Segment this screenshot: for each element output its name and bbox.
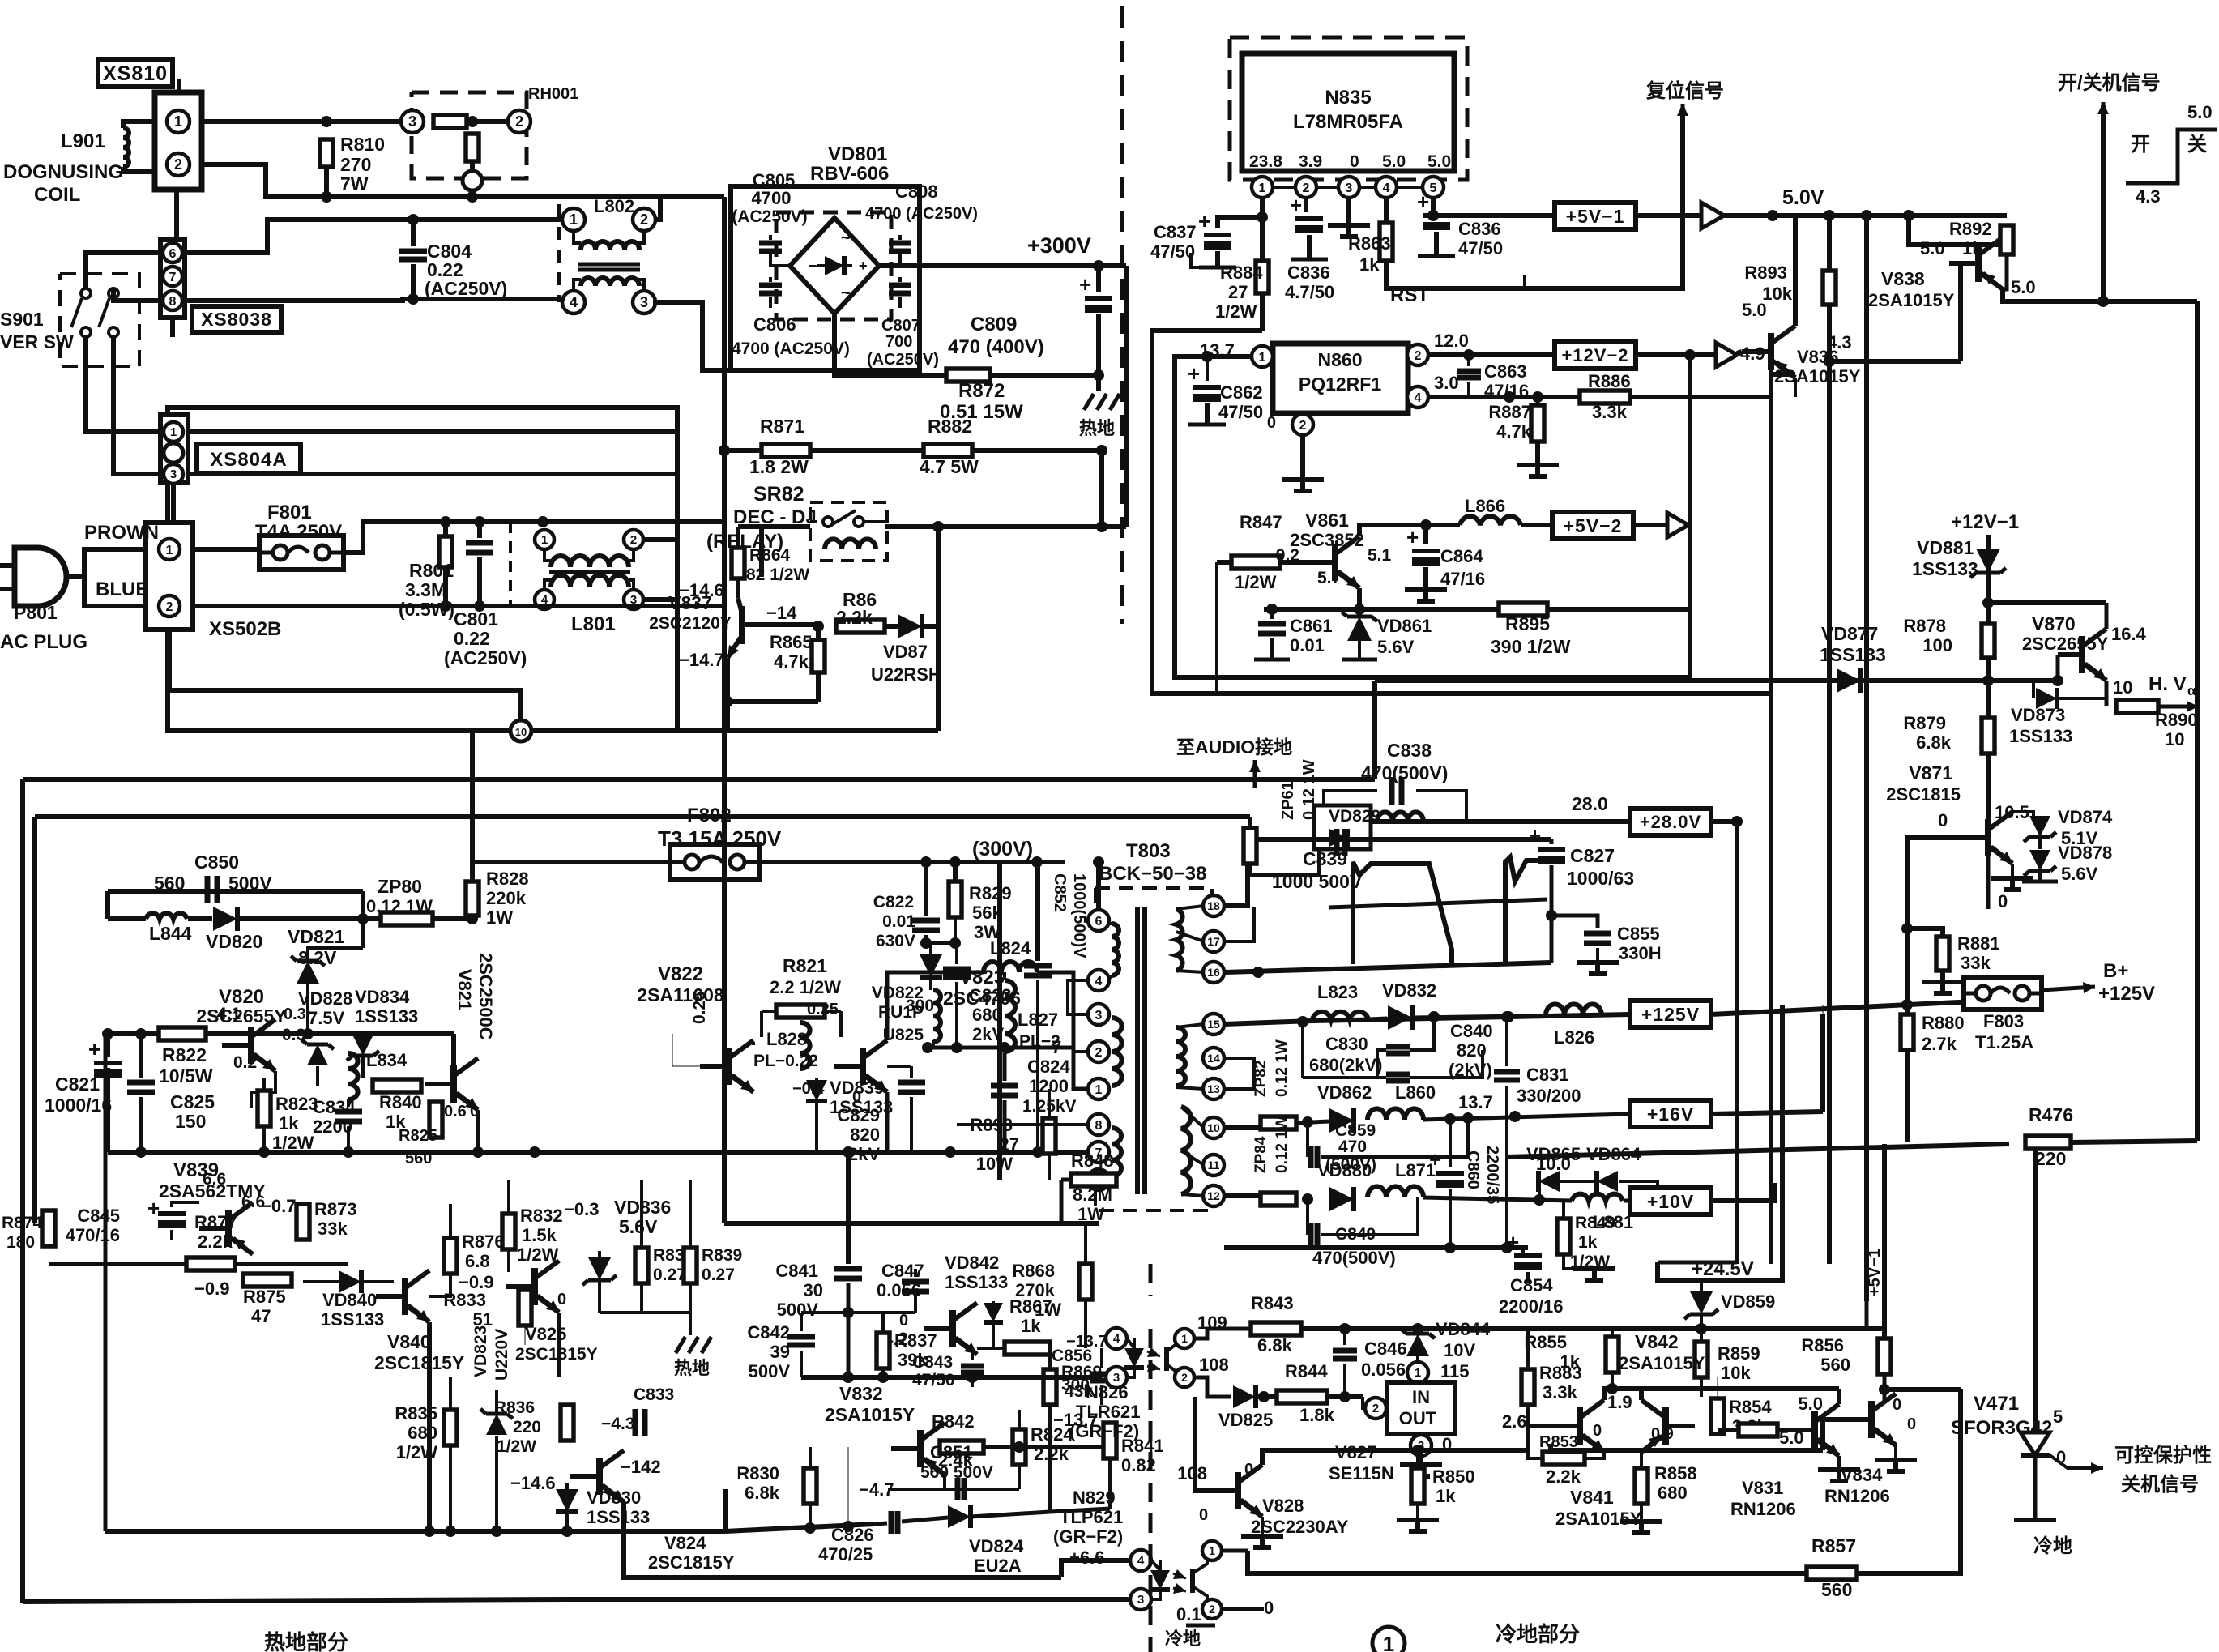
svg-text:R839: R839 (702, 1246, 742, 1265)
svg-text:4: 4 (1113, 1332, 1120, 1346)
bridge inner diode (825, 256, 844, 275)
SCR V471 symbol (2021, 1432, 2050, 1455)
resistor R830 (804, 1468, 817, 1504)
wire VD87 node down (936, 626, 941, 731)
svg-text:R801: R801 (409, 560, 454, 581)
svg-text:1/2W: 1/2W (497, 1437, 536, 1456)
svg-text:−14.6: −14.6 (510, 1473, 556, 1493)
node XS8038 label (192, 306, 281, 332)
inductor L827 (1005, 980, 1015, 1052)
svg-text:1: 1 (1095, 1083, 1103, 1097)
svg-text:PQ12RF1: PQ12RF1 (1299, 374, 1381, 395)
svg-text:(300V): (300V) (972, 838, 1033, 860)
svg-text:1SS133: 1SS133 (945, 1272, 1008, 1292)
svg-text:V471: V471 (1974, 1393, 2019, 1415)
svg-text:7W: 7W (340, 173, 369, 194)
wire R829 column (953, 862, 958, 881)
svg-text:R832: R832 (520, 1206, 563, 1226)
wire V861 emitter down (1357, 588, 1362, 609)
wire long vertical 2144 (1735, 822, 1739, 1262)
resistor R864 (736, 527, 740, 548)
opto N826 led (1124, 1348, 1144, 1368)
wire pin9 link (1061, 1178, 1088, 1182)
svg-text:330H: 330H (1619, 943, 1662, 963)
svg-text:R881: R881 (1957, 933, 2000, 954)
svg-text:V832: V832 (839, 1383, 883, 1404)
svg-text:+: + (1406, 525, 1419, 549)
svg-text:10W: 10W (976, 1154, 1013, 1174)
svg-text:V842: V842 (1635, 1331, 1679, 1352)
svg-text:1: 1 (1259, 351, 1266, 365)
resistor R838 (635, 1248, 648, 1283)
resistor R874 (42, 1210, 55, 1246)
svg-text:IN: IN (1412, 1387, 1430, 1407)
transistor V842s small (949, 1310, 956, 1347)
svg-text:R848: R848 (1071, 1150, 1114, 1171)
svg-text:+: + (88, 1037, 100, 1061)
svg-text:C801: C801 (454, 608, 498, 630)
svg-text:8: 8 (1095, 1119, 1103, 1133)
svg-text:C854: C854 (1510, 1275, 1553, 1296)
svg-text:C850: C850 (194, 852, 239, 873)
svg-text:0: 0 (2056, 1447, 2066, 1467)
svg-text:4: 4 (570, 294, 578, 310)
capacitor C821 (105, 1034, 110, 1057)
svg-text:C826: C826 (831, 1525, 874, 1545)
wire C822 column (924, 862, 928, 916)
svg-text:27: 27 (1000, 1134, 1019, 1155)
svg-text:2: 2 (166, 600, 173, 614)
svg-text:1/2W: 1/2W (517, 1244, 559, 1265)
ground N835 pin3 (1346, 198, 1351, 224)
wire V841 emitter (1640, 1452, 1643, 1468)
svg-text:C823: C823 (969, 985, 1012, 1005)
capacitor C831 (1505, 1017, 1508, 1066)
svg-text:冷地: 冷地 (2033, 1535, 2072, 1557)
fuse F802 (670, 844, 759, 880)
capacitor C830 (1301, 1022, 1304, 1078)
svg-text:2SA1015Y: 2SA1015Y (1555, 1509, 1642, 1529)
svg-text:XS810: XS810 (103, 62, 168, 85)
line filter L802 (562, 208, 585, 231)
wire L801 pin2 right (643, 537, 677, 542)
svg-text:V871: V871 (1909, 762, 1952, 783)
resistor R856 (1878, 1338, 1891, 1374)
wire V831 emitter gnd (1837, 1456, 1841, 1468)
svg-text:1: 1 (170, 425, 177, 439)
svg-text:6.8k: 6.8k (1916, 732, 1952, 753)
svg-text:1.8 2W: 1.8 2W (749, 456, 809, 477)
wire V838 out right (2103, 299, 2197, 304)
svg-text:560: 560 (154, 873, 185, 894)
svg-text:6.8k: 6.8k (745, 1483, 780, 1503)
svg-text:+12V−1: +12V−1 (1951, 511, 2019, 533)
zener VD821 (361, 919, 365, 948)
svg-text:BLUE: BLUE (96, 578, 148, 600)
svg-text:VD830: VD830 (587, 1488, 641, 1508)
svg-text:10: 10 (515, 726, 527, 738)
svg-text:可控保护性: 可控保护性 (2114, 1444, 2212, 1466)
capacitor C823 (955, 943, 958, 964)
resistor R839 (684, 1248, 697, 1283)
svg-text:U22RSH: U22RSH (871, 664, 941, 685)
wire V471 anode (2033, 1144, 2038, 1432)
wire V821 emitter (476, 1110, 480, 1152)
wire right edge vertical (2195, 301, 2200, 1141)
svg-text:C860: C860 (1464, 1150, 1482, 1189)
svg-text:330/200: 330/200 (1517, 1086, 1581, 1106)
svg-text:T1.25A: T1.25A (1975, 1032, 2033, 1052)
svg-text:500V: 500V (749, 1361, 791, 1381)
wire XS810 stub (177, 79, 181, 92)
svg-text:VD861: VD861 (1377, 616, 1432, 636)
wire pair collector (1604, 1389, 1641, 1400)
capacitor C860 (1449, 1118, 1452, 1167)
svg-text:5.1: 5.1 (1368, 546, 1392, 565)
svg-text:470/16: 470/16 (66, 1225, 120, 1245)
capacitor C845 (172, 1202, 199, 1207)
svg-text:5.7: 5.7 (1317, 569, 1341, 587)
svg-text:4.7k: 4.7k (1496, 421, 1532, 442)
svg-text:13.7: 13.7 (1458, 1092, 1493, 1112)
svg-text:L834: L834 (366, 1050, 408, 1070)
wire V870 emitter to HV (2105, 681, 2109, 706)
svg-text:13: 13 (1207, 1082, 1220, 1095)
hot ground at C809 (1096, 375, 1101, 391)
svg-text:1: 1 (174, 113, 182, 130)
svg-text:PL−0.22: PL−0.22 (753, 1052, 818, 1070)
svg-text:C840: C840 (1450, 1021, 1493, 1041)
wire V836 column (1769, 369, 1773, 397)
svg-text:V828: V828 (1262, 1496, 1304, 1516)
svg-text:82 1/2W: 82 1/2W (746, 566, 809, 584)
wire 125 rail (1224, 1014, 1630, 1024)
svg-text:2SC3852: 2SC3852 (1290, 530, 1364, 550)
diode VD87 (898, 614, 922, 638)
wire 24V elbow (1658, 1262, 1701, 1280)
svg-text:1000/16: 1000/16 (45, 1095, 112, 1116)
plug P801 (15, 548, 66, 606)
svg-text:820: 820 (850, 1125, 880, 1145)
transistor V832 (917, 1430, 924, 1467)
svg-text:R875: R875 (243, 1287, 286, 1307)
VD829 box (1314, 805, 1371, 849)
transistor V837 (736, 578, 740, 598)
svg-text:−14.6: −14.6 (679, 580, 724, 600)
svg-text:16.4: 16.4 (2111, 624, 2147, 644)
wire PROWN (66, 549, 146, 577)
svg-text:10: 10 (2165, 729, 2184, 749)
svg-text:R877: R877 (194, 1212, 237, 1232)
resistor R880 (1901, 1014, 1914, 1050)
wire V870 collector up (2105, 603, 2109, 629)
wire pin6 up (1096, 862, 1101, 909)
transistor V831 (1811, 1411, 1818, 1449)
svg-text:1: 1 (1383, 1632, 1394, 1652)
node XS810 label (98, 59, 173, 87)
wire C838 left (1324, 791, 1377, 805)
wire emitter rail (108, 1150, 1099, 1155)
resistor R836 (561, 1405, 574, 1441)
transistor V838 (1975, 245, 1982, 282)
svg-text:VD828: VD828 (298, 988, 352, 1009)
svg-text:XS502B: XS502B (209, 618, 281, 640)
svg-text:700: 700 (885, 333, 912, 351)
wire XS8038 pin8 to S901 (113, 288, 160, 301)
resistor R86 (836, 620, 885, 633)
resistor R895 (1499, 603, 1547, 616)
wire 5V to base row (1864, 216, 1869, 361)
wire mid bottom row (105, 1529, 725, 1534)
svg-text:R863: R863 (1348, 233, 1391, 254)
svg-text:V861: V861 (1305, 510, 1349, 531)
svg-text:L871: L871 (1395, 1160, 1436, 1180)
dashed branch (509, 522, 512, 604)
svg-text:47/50: 47/50 (912, 1371, 955, 1389)
wire feedback row (801, 1375, 1102, 1380)
wire hot bottom vertical x895 (723, 1489, 728, 1531)
svg-text:1SS133: 1SS133 (321, 1309, 384, 1330)
transistor V840 (402, 1278, 408, 1315)
wire V838 base from R893 row (1949, 263, 1961, 361)
svg-text:COIL: COIL (34, 184, 80, 206)
svg-text:0.056: 0.056 (1361, 1360, 1406, 1380)
IC V827 SE115N box (1387, 1382, 1455, 1434)
svg-text:开/关机信号: 开/关机信号 (2058, 71, 2161, 94)
wire V838 emitter tap (1909, 216, 1998, 245)
svg-text:R859: R859 (1718, 1343, 1760, 1364)
waveform pulse2 (1505, 857, 1546, 964)
resistor R801 (443, 522, 448, 536)
svg-text:1.5k: 1.5k (522, 1225, 557, 1245)
svg-text:至AUDIO接地: 至AUDIO接地 (1176, 736, 1292, 758)
zener VD844 (1406, 1334, 1429, 1356)
wire V831 collector (1837, 1389, 1841, 1404)
svg-text:C862: C862 (1220, 382, 1263, 403)
svg-text:3: 3 (170, 467, 177, 481)
svg-text:2.2k: 2.2k (1546, 1466, 1581, 1487)
svg-text:V838: V838 (1881, 268, 1925, 289)
svg-text:~: ~ (841, 229, 851, 247)
svg-text:0: 0 (1893, 1396, 1901, 1414)
T803 primary winding 6-4 (1112, 924, 1119, 975)
wire ZP80 junction (357, 913, 369, 924)
resistor R823 (258, 1091, 271, 1126)
svg-text:3.3k: 3.3k (1543, 1382, 1578, 1402)
svg-text:VD834: VD834 (355, 987, 410, 1007)
svg-text:R893: R893 (1744, 263, 1787, 283)
wire to opto4 (1061, 1560, 1130, 1577)
transformer T803 dashed box (1095, 888, 1212, 904)
svg-text:+12V−2: +12V−2 (1561, 345, 1628, 365)
wire 10V out (1711, 1183, 1774, 1201)
svg-text:VD840: VD840 (322, 1290, 377, 1310)
svg-text:R886: R886 (1588, 371, 1631, 391)
svg-text:5: 5 (2053, 1407, 2063, 1427)
svg-text:VD842: VD842 (945, 1253, 999, 1273)
svg-text:C822: C822 (873, 893, 914, 911)
svg-text:0.22: 0.22 (454, 628, 490, 649)
resistor R881 (1901, 923, 1913, 934)
wire pin12 (1224, 1193, 1261, 1198)
svg-text:270k: 270k (1015, 1280, 1056, 1300)
capacitor C854 (1521, 1248, 1525, 1254)
transistor V828 (1235, 1472, 1241, 1509)
svg-text:VD820: VD820 (206, 931, 262, 952)
wire R856 node right (1884, 1387, 1961, 1392)
wire opto c (1195, 1329, 1251, 1338)
capacitor C809 (1096, 266, 1101, 292)
svg-text:N826: N826 (1086, 1382, 1129, 1402)
svg-text:2kV: 2kV (848, 1144, 880, 1164)
wire V825 emitter (557, 1313, 561, 1377)
svg-text:C845: C845 (77, 1206, 120, 1226)
svg-text:R871: R871 (760, 416, 804, 437)
inductor L826 (1546, 1004, 1602, 1015)
svg-text:VD824: VD824 (969, 1536, 1024, 1556)
svg-text:5.0: 5.0 (1798, 1394, 1823, 1414)
wire V828 emitter gnd (1261, 1517, 1264, 1535)
capacitor C805 (769, 235, 772, 240)
wire VD877 row (1375, 678, 2058, 683)
wire V821 collector (451, 1034, 456, 1065)
svg-text:1k: 1k (1560, 1351, 1581, 1372)
svg-text:+16V: +16V (1647, 1103, 1694, 1125)
svg-text:1/2W: 1/2W (1215, 301, 1257, 322)
svg-text:3.3k: 3.3k (1592, 402, 1628, 422)
inductor L901 degaussing coil (123, 122, 155, 128)
wire XS804A pin1 right (188, 429, 677, 434)
svg-text:2SC2655Y: 2SC2655Y (2022, 634, 2109, 654)
svg-text:0.12 1W: 0.12 1W (1274, 1116, 1291, 1173)
svg-text:2SC1815: 2SC1815 (1886, 784, 1961, 805)
svg-text:R878: R878 (1903, 616, 1946, 636)
svg-text:R892: R892 (1949, 219, 1992, 239)
svg-text:H. V: H. V (2149, 673, 2187, 695)
capacitor C836b (1431, 198, 1436, 209)
diode VD877 (1837, 668, 1861, 693)
transistor V861 (1332, 544, 1338, 581)
wire V837 base (742, 622, 814, 627)
svg-text:+: + (1529, 823, 1541, 847)
page number circle (1372, 1627, 1405, 1652)
node +16V box (1630, 1100, 1711, 1127)
resistor R855 (1606, 1337, 1619, 1372)
inductor L881 (1572, 1194, 1623, 1201)
wire RST (1386, 108, 1683, 288)
svg-text:4.7/50: 4.7/50 (1285, 282, 1334, 302)
svg-text:0.1: 0.1 (1176, 1604, 1201, 1624)
svg-text:0: 0 (1244, 1461, 1253, 1479)
svg-text:3.3M: 3.3M (405, 579, 446, 600)
wire to 28V box (1371, 819, 1630, 824)
resistor R843 (1251, 1322, 1301, 1335)
svg-text:2SC1815Y: 2SC1815Y (515, 1345, 598, 1364)
svg-text:N829: N829 (1073, 1488, 1116, 1508)
wire pin17 tap (1224, 907, 1254, 941)
node +10V box (1630, 1188, 1711, 1214)
svg-text:S901: S901 (0, 309, 44, 330)
svg-text:C846: C846 (1364, 1338, 1407, 1359)
svg-text:V824: V824 (664, 1533, 706, 1553)
svg-text:P801: P801 (14, 602, 58, 623)
resistor R849 (1557, 1219, 1570, 1254)
resistor R898 (1043, 1118, 1056, 1154)
svg-text:N860: N860 (1318, 349, 1363, 370)
svg-text:2SC1815Y: 2SC1815Y (648, 1552, 735, 1573)
svg-text:15: 15 (1207, 1018, 1220, 1031)
hot area outer box (168, 408, 677, 731)
svg-text:VD874: VD874 (2058, 807, 2113, 827)
svg-text:3: 3 (1137, 1593, 1144, 1607)
bridge diamond (790, 218, 879, 314)
svg-text:9.2: 9.2 (1276, 546, 1299, 565)
svg-text:1k: 1k (1962, 238, 1982, 258)
bridge dashed box (776, 212, 891, 319)
svg-text:C837: C837 (1154, 222, 1197, 242)
svg-text:(AC250V): (AC250V) (425, 278, 507, 299)
svg-text:17: 17 (1207, 935, 1220, 948)
wire R872 row (834, 314, 1099, 375)
resistor R825 (429, 1102, 442, 1138)
svg-text:R476: R476 (2029, 1104, 2073, 1125)
svg-text:L828: L828 (766, 1029, 807, 1049)
svg-text:2SC1815Y: 2SC1815Y (374, 1352, 464, 1373)
wire R869 down (1048, 1405, 1052, 1512)
svg-text:L801: L801 (571, 613, 616, 635)
svg-text:~: ~ (841, 284, 851, 302)
svg-text:3: 3 (1346, 181, 1353, 195)
wire hot bus top (23, 777, 1375, 782)
resistor R850 (1416, 1450, 1419, 1468)
svg-text:2200/35: 2200/35 (1483, 1146, 1501, 1204)
svg-text:5.6V: 5.6V (1377, 637, 1415, 657)
svg-text:56k: 56k (972, 903, 1002, 923)
svg-text:500V: 500V (777, 1300, 819, 1320)
svg-text:47/50: 47/50 (1218, 402, 1263, 422)
wire vertical 1234 (997, 862, 1002, 1180)
capacitor C829 (910, 1066, 913, 1078)
inductor L860 (1368, 1108, 1423, 1120)
transistor V822 (726, 1048, 732, 1085)
svg-text:V841: V841 (1570, 1487, 1614, 1508)
svg-text:U220V: U220V (493, 1329, 511, 1381)
svg-text:C836: C836 (1458, 219, 1501, 239)
svg-text:R857: R857 (1811, 1535, 1856, 1556)
svg-text:+: + (1198, 209, 1210, 233)
svg-text:+5V−1: +5V−1 (1566, 206, 1625, 227)
wire N829 lower out (1248, 1607, 1264, 1611)
svg-text:+: + (1290, 193, 1302, 217)
wire V836 base row (1794, 378, 1797, 397)
svg-text:RH001: RH001 (528, 85, 578, 103)
resistor R822 (159, 1027, 206, 1040)
svg-text:C836: C836 (1287, 263, 1330, 283)
wire to L802 pin2 (653, 197, 660, 220)
svg-text:2.2k: 2.2k (198, 1232, 233, 1252)
wire R895 row (1264, 607, 1690, 612)
resistor R887 (1536, 397, 1539, 405)
diodes VD865 VD864 (1538, 1181, 1541, 1200)
resistor R844 (1277, 1390, 1327, 1403)
svg-text:C831: C831 (1526, 1065, 1569, 1085)
svg-text:150: 150 (175, 1111, 206, 1132)
svg-text:0: 0 (1938, 810, 1948, 830)
diode VD822 (920, 954, 942, 977)
resistor R859 (1700, 1329, 1703, 1342)
wire V834 base (1823, 1419, 1842, 1450)
T803 primary winding 3-1 (1112, 1018, 1122, 1086)
